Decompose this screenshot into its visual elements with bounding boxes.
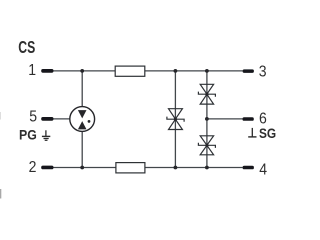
gas discharge tube G1 (circle)	[70, 107, 95, 132]
gas discharge tube G1 arrow down	[78, 110, 87, 118]
svg-text:5: 5	[29, 109, 37, 126]
junction bottom rail / D3 branch	[205, 166, 209, 170]
wire middle node to terminal 6	[207, 118, 243, 120]
scan artifact left edge faint	[0, 112, 1, 120]
suppressor diode D3 breakdown bar	[198, 143, 215, 148]
suppressor diode D1 top triangle	[169, 109, 183, 119]
wire bottom rail left segment (terminal 2 to resistor R2)	[53, 167, 116, 169]
pin number 2	[29, 160, 37, 177]
terminal 6 (black bar)	[243, 117, 254, 121]
suppressor diode D2 bottom triangle	[200, 94, 213, 104]
junction top rail / D1 branch	[174, 69, 178, 73]
resistor R2 (bottom)	[116, 163, 145, 173]
svg-text:4: 4	[259, 162, 267, 179]
terminal 1 (black bar)	[41, 69, 53, 73]
ground tack symbol at SG	[248, 128, 256, 137]
label SG (signal ground)	[259, 125, 276, 141]
suppressor diode D3 bottom triangle	[200, 145, 213, 154]
terminal 2 (black bar)	[41, 166, 53, 170]
suppressor diode D3 top triangle	[200, 136, 213, 145]
svg-text:1: 1	[28, 63, 36, 80]
suppressor diode D3 center junction	[205, 144, 208, 147]
suppressor diode D2 center junction	[205, 93, 208, 96]
wire vertical from top rail to gas discharge tube	[81, 71, 83, 107]
wire vertical branch through suppressors D2 D3	[206, 71, 208, 168]
gas discharge tube G1 arrow up	[78, 121, 87, 129]
pin number 4	[259, 162, 267, 179]
svg-text:2: 2	[29, 160, 37, 177]
wire vertical from gas discharge tube to bottom rail	[81, 131, 83, 167]
junction top rail / gas tube branch	[80, 69, 84, 73]
junction node to terminal 6	[205, 117, 209, 121]
terminal 5 (black bar)	[41, 117, 53, 121]
wire terminal 5 to gas discharge tube	[53, 118, 70, 120]
wire bottom rail right segment (resistor R2 to terminal 4)	[145, 167, 243, 169]
junction top rail / D2 branch	[205, 69, 209, 73]
svg-text:CS: CS	[18, 38, 35, 58]
scan artifact left edge dark	[0, 189, 1, 199]
junction bottom rail / gas tube branch	[80, 166, 84, 170]
junction bottom rail / D1 branch	[174, 166, 178, 170]
svg-text:PG: PG	[19, 127, 37, 143]
pin number 6	[259, 111, 267, 128]
terminal 4 (black bar)	[243, 166, 254, 170]
pin number 1	[28, 63, 36, 80]
ground symbol at PG	[42, 130, 50, 140]
pin number 5	[29, 109, 37, 126]
wire top rail right segment (resistor R1 to terminal 3)	[145, 70, 243, 72]
label CS (circuit title)	[18, 38, 35, 58]
pin number 3	[259, 64, 267, 81]
wire vertical branch through suppressor D1	[174, 71, 176, 168]
suppressor diode D2 breakdown bar	[198, 92, 215, 97]
svg-text:SG: SG	[259, 125, 276, 141]
suppressor diode D1 center junction	[174, 118, 177, 121]
label PG (protective ground)	[19, 127, 37, 143]
suppressor diode D1 bottom triangle	[169, 119, 183, 129]
terminal 3 (black bar)	[243, 69, 254, 73]
suppressor diode D2 top triangle	[200, 84, 213, 94]
svg-text:3: 3	[259, 64, 267, 81]
resistor R1 (top)	[115, 66, 145, 76]
gas discharge tube G1 gas dot	[88, 120, 91, 123]
suppressor diode D1 breakdown bar	[167, 117, 184, 122]
wire top rail left segment (terminal 1 to resistor R1)	[53, 70, 115, 72]
